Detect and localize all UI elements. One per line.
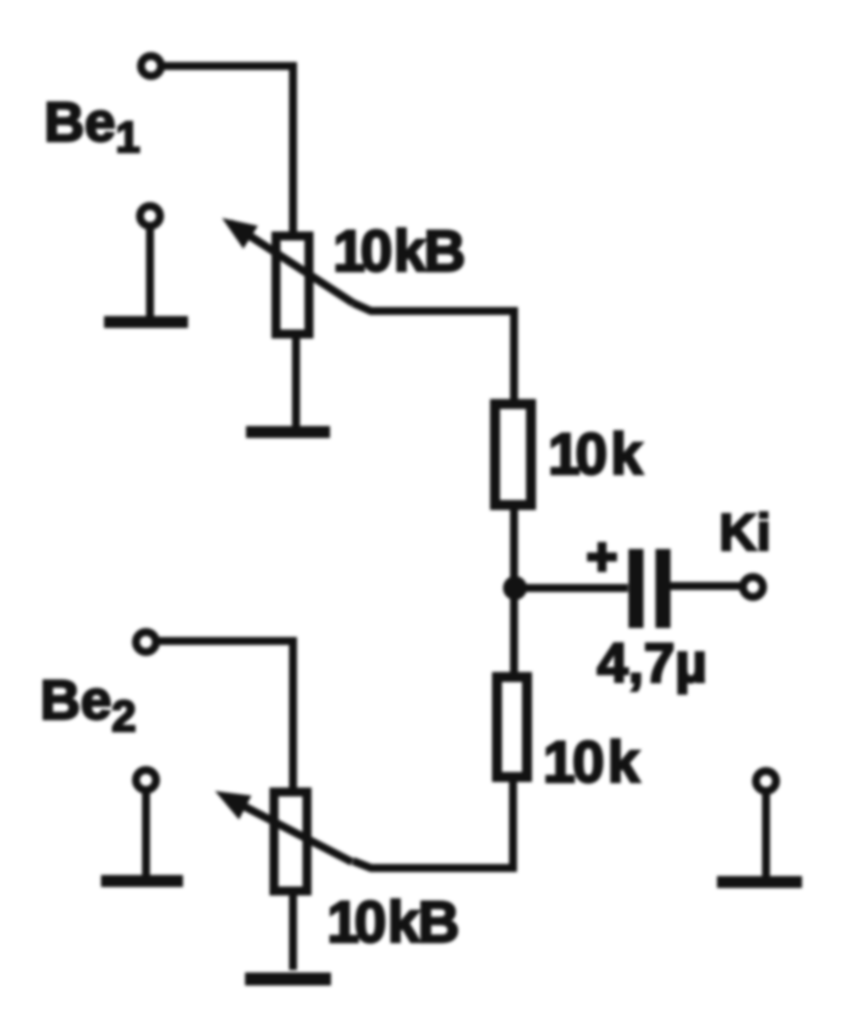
svg-text:Be2: Be2 — [40, 668, 136, 741]
wire Be1 terminal to potentiometer P1 top — [162, 66, 293, 238]
ground bar below P2 — [245, 973, 331, 986]
wire P1 bottom to ground — [292, 338, 300, 427]
wire R2 to potentiometer P2 wiper — [353, 778, 513, 868]
terminal ground right — [756, 771, 776, 791]
capacitor C1 plus sign — [587, 542, 617, 572]
resistor R2 body — [497, 677, 527, 777]
node junction — [503, 576, 527, 600]
resistor R1 body — [495, 404, 531, 505]
terminal Ki — [743, 577, 763, 597]
wire right terminal to ground — [762, 792, 770, 877]
svg-text:10kB: 10kB — [327, 890, 458, 955]
svg-text:10kB: 10kB — [333, 219, 464, 284]
svg-text:10k: 10k — [548, 422, 644, 487]
wire node to capacitor C1 — [515, 584, 628, 592]
svg-text:Ki: Ki — [719, 504, 771, 562]
ground bar below P1 — [246, 426, 330, 438]
svg-text:10k: 10k — [543, 730, 641, 795]
wire node to resistor R2 — [510, 588, 518, 676]
wire P2 bottom to ground — [289, 892, 297, 970]
potentiometer P1 body — [276, 236, 309, 334]
potentiometer P1 wiper arrow — [222, 218, 353, 303]
ground bar upper left — [104, 316, 188, 328]
terminal Be2 — [136, 632, 156, 652]
svg-text:Be1: Be1 — [44, 90, 140, 162]
terminal ground lower left — [136, 770, 156, 790]
terminal ground upper left — [140, 206, 160, 226]
svg-text:4,7µ: 4,7µ — [597, 631, 707, 694]
potentiometer P2 wiper arrow — [215, 791, 352, 862]
potentiometer P2 body — [274, 792, 307, 891]
wire capacitor C1 to Ki terminal — [670, 582, 742, 590]
ground bar lower left — [101, 875, 183, 887]
capacitor C1 plates — [636, 549, 663, 628]
wire Be2 terminal to potentiometer P2 top — [157, 641, 293, 794]
wire P1 wiper to resistor R1 — [353, 303, 514, 403]
wire R1 to node — [510, 505, 518, 588]
wire upper left terminal to ground — [146, 227, 154, 318]
terminal Be1 — [141, 56, 161, 76]
wire lower left terminal to ground — [142, 791, 150, 876]
ground bar right — [717, 876, 802, 888]
